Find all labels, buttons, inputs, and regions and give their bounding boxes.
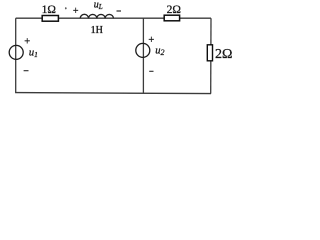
wire middle (u2 branch) xyxy=(142,18,144,93)
wire right xyxy=(210,18,212,93)
svg-text:+: + xyxy=(73,6,79,17)
resistor R3 box (2 ohm right, vertical) xyxy=(207,45,212,61)
wire bottom xyxy=(15,93,211,94)
wire left xyxy=(15,18,17,92)
wire top xyxy=(16,17,211,19)
polarity minus of u2 xyxy=(149,70,153,72)
svg-text:1Ω: 1Ω xyxy=(42,4,56,16)
resistor R1 box (1 ohm) xyxy=(42,16,58,22)
source u1 circle xyxy=(9,45,23,59)
polarity minus of uL xyxy=(117,10,122,12)
svg-text:u2: u2 xyxy=(155,45,164,57)
svg-text:u1: u1 xyxy=(29,47,38,59)
svg-text:1H: 1H xyxy=(91,25,103,36)
svg-text:2Ω: 2Ω xyxy=(167,4,181,16)
svg-text:+: + xyxy=(24,36,30,47)
polarity minus of u1 xyxy=(24,70,29,72)
stray dot artifact xyxy=(65,7,66,9)
resistor R2 box (2 ohm top) xyxy=(164,15,179,21)
svg-text:uL: uL xyxy=(94,0,103,11)
source u2 circle xyxy=(136,43,150,57)
inductor L (1H) coils xyxy=(80,14,113,18)
svg-text:2Ω: 2Ω xyxy=(215,47,232,62)
svg-text:+: + xyxy=(148,35,154,46)
